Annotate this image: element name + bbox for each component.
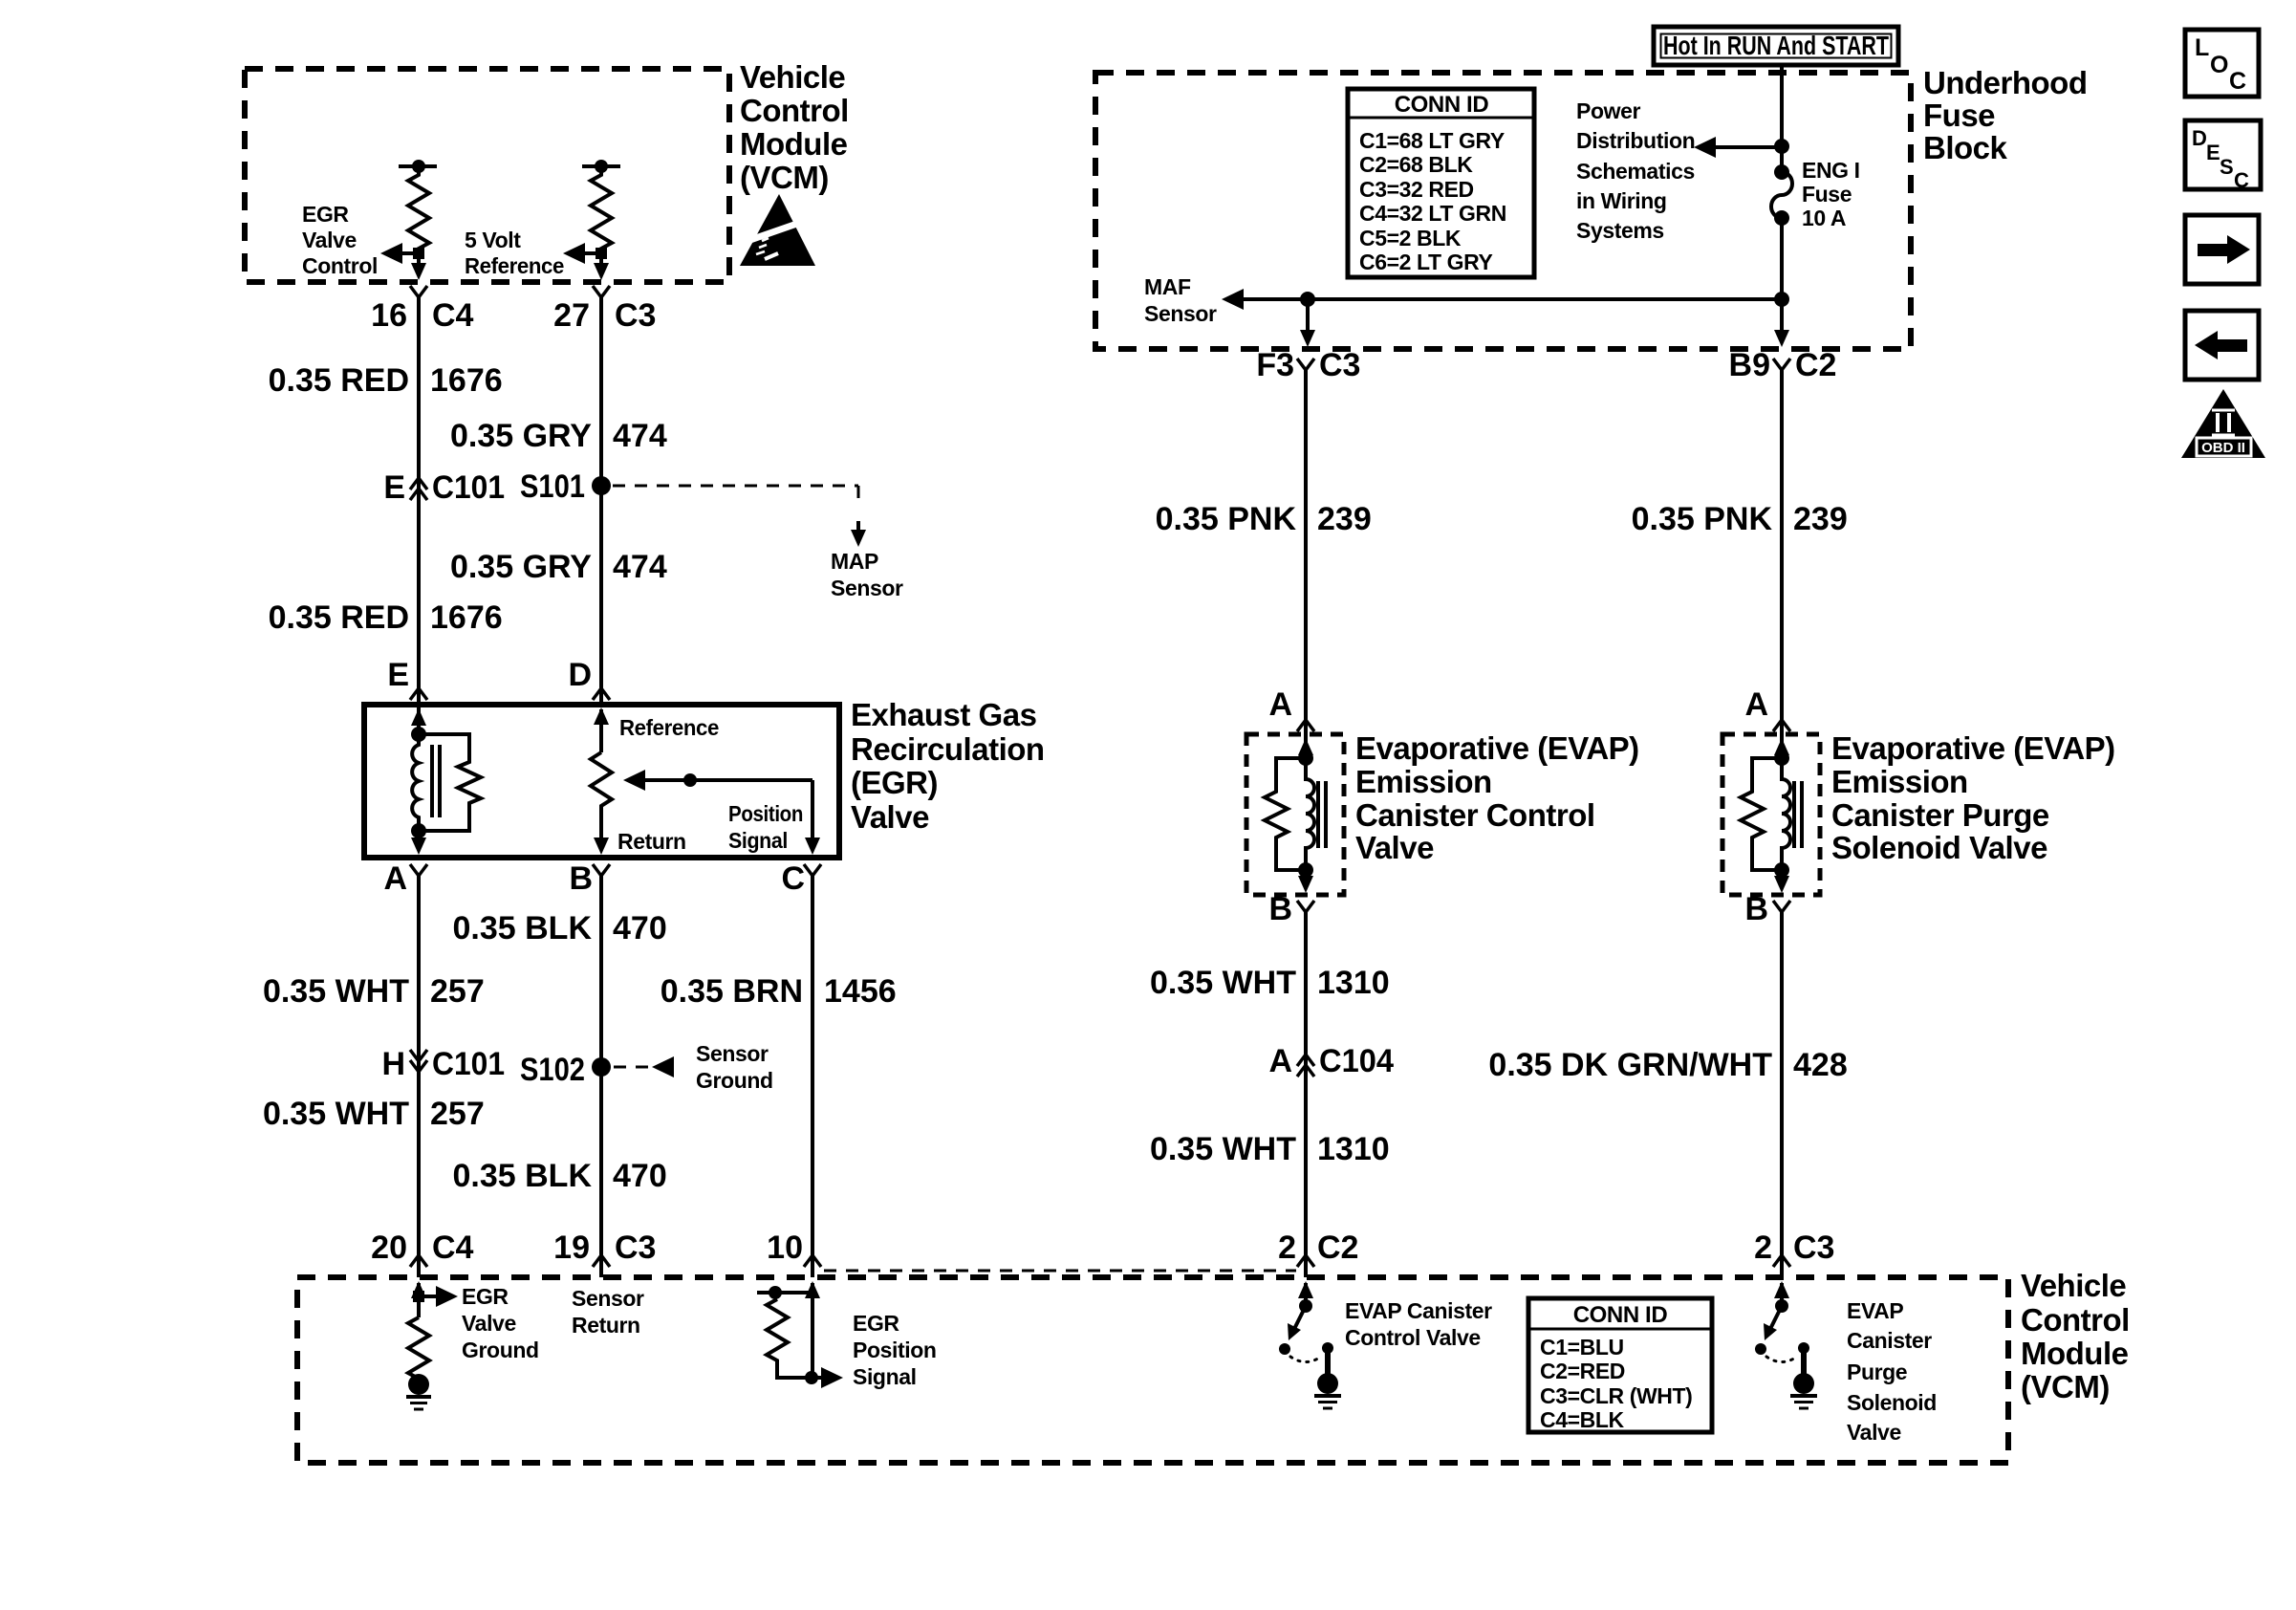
svg-text:1310: 1310 — [1317, 1131, 1390, 1167]
arrow: into EGR solenoid (pin E) — [411, 705, 426, 734]
svg-text:C2: C2 — [1317, 1229, 1358, 1266]
label: ENG I Fuse 10 A — [1802, 158, 1860, 230]
svg-text:474: 474 — [613, 418, 667, 454]
connector pin 16 C4 — [371, 286, 473, 334]
arrow: down to B9 — [1774, 330, 1789, 347]
wire: dashed circuit continuation (pin 10 net) — [824, 1270, 1296, 1273]
svg-text:OBD II: OBD II — [2201, 440, 2245, 456]
resistor: EGR solenoid parallel resistor — [419, 734, 481, 831]
module box: Vehicle Control Module (VCM) top-left — [245, 69, 729, 282]
wire: EGR position signal resistor bar — [757, 1286, 809, 1299]
svg-text:20: 20 — [371, 1229, 407, 1266]
svg-text:MAF: MAF — [1144, 274, 1191, 299]
svg-text:5 Volt: 5 Volt — [465, 228, 521, 252]
svg-text:B: B — [1744, 891, 1768, 927]
svg-text:C: C — [781, 860, 805, 897]
svg-text:B: B — [1268, 891, 1292, 927]
label: MAF Sensor — [1144, 274, 1217, 326]
label: EVAP Canister Control Valve — [1345, 1298, 1492, 1350]
svg-text:Distribution: Distribution — [1576, 128, 1695, 153]
node: position signal output junction — [805, 1371, 818, 1384]
svg-text:Sensor: Sensor — [831, 576, 903, 600]
svg-text:Control Valve: Control Valve — [1345, 1325, 1481, 1350]
svg-text:Purge: Purge — [1847, 1360, 1907, 1384]
svg-text:Canister: Canister — [1847, 1328, 1932, 1353]
svg-text:0.35 PNK: 0.35 PNK — [1632, 501, 1773, 537]
svg-text:474: 474 — [613, 549, 667, 585]
arrow: pin 20 into VCM — [411, 1281, 426, 1317]
switch: EVAP canister control valve driver — [1279, 1281, 1333, 1377]
svg-text:C2=RED: C2=RED — [1540, 1359, 1625, 1383]
label: Underhood Fuse Block — [1923, 65, 2087, 165]
node: EGR valve ground junction — [413, 1291, 424, 1302]
svg-text:Hot In RUN And START: Hot In RUN And START — [1663, 31, 1889, 60]
svg-text:ENG I: ENG I — [1802, 158, 1860, 183]
connector pin B9 C2 — [1729, 347, 1837, 383]
wire: 0.35 PNK 239 (F3 to EVAP control valve) — [1304, 370, 1308, 734]
connector pin A (EVAP control valve) — [1268, 686, 1314, 731]
svg-text:Reference: Reference — [619, 715, 719, 740]
svg-text:Module: Module — [740, 126, 848, 162]
table: CONN ID (VCM) — [1528, 1298, 1712, 1432]
svg-text:C3: C3 — [1319, 347, 1360, 383]
svg-text:L: L — [2195, 34, 2209, 61]
svg-text:Return: Return — [572, 1313, 640, 1338]
fuse: ENG I Fuse 10 A — [1771, 164, 1792, 226]
svg-text:Valve: Valve — [1355, 830, 1434, 865]
label: 0.35 GRY 474 (lower) — [450, 549, 667, 585]
label: Return — [617, 829, 686, 854]
svg-text:239: 239 — [1317, 501, 1372, 537]
svg-text:Fuse: Fuse — [1923, 98, 1995, 133]
coil: EGR valve solenoid winding — [412, 734, 440, 831]
arrow: into control valve solenoid — [1298, 734, 1313, 758]
coil: purge valve solenoid winding — [1782, 758, 1802, 870]
label: Vehicle Control Module (VCM) — [740, 59, 849, 195]
svg-text:(VCM): (VCM) — [740, 160, 829, 195]
svg-text:C: C — [2234, 168, 2249, 192]
svg-text:C6=2 LT GRY: C6=2 LT GRY — [1359, 250, 1492, 274]
arrow: solenoid to pin A — [411, 831, 426, 855]
arrow: reference into position sensor — [594, 707, 609, 752]
connector at EGR valve pin E — [410, 688, 427, 700]
module box: Vehicle Control Module (VCM) bottom — [297, 1277, 2008, 1463]
label: Reference — [619, 715, 719, 740]
label: EGR Position Signal — [853, 1311, 937, 1389]
arrow: return from position sensor — [594, 838, 609, 855]
icon: forward arrow button — [2185, 215, 2259, 284]
svg-text:Sensor: Sensor — [1144, 301, 1217, 326]
svg-text:27: 27 — [553, 297, 590, 334]
label: 0.35 GRY 474 (upper) — [450, 418, 667, 454]
label: MAP Sensor — [831, 549, 903, 600]
label: Evaporative (EVAP) Emission Canister Purge Solenoid Valve — [1831, 730, 2115, 865]
connector at EGR valve pin D — [593, 688, 610, 700]
svg-text:in Wiring: in Wiring — [1576, 188, 1667, 213]
svg-text:EGR: EGR — [302, 202, 349, 227]
svg-text:E: E — [383, 469, 405, 506]
svg-text:Position: Position — [853, 1338, 937, 1362]
feed box: Hot In RUN And START — [1654, 27, 1898, 65]
svg-text:Signal: Signal — [728, 828, 788, 853]
label: 0.35 PNK 239 (right) — [1632, 501, 1848, 537]
svg-text:(VCM): (VCM) — [2021, 1369, 2110, 1404]
svg-text:239: 239 — [1793, 501, 1848, 537]
svg-text:0.35 BRN: 0.35 BRN — [661, 973, 803, 1010]
svg-text:C3: C3 — [615, 297, 656, 334]
label: 0.35 WHT 257 (lower) — [263, 1096, 485, 1132]
resistor: control valve parallel resistor — [1265, 758, 1306, 870]
connector pin 2 C2 (VCM) — [1278, 1229, 1358, 1277]
label: 0.35 RED 1676 (upper) — [269, 362, 503, 399]
svg-text:CONN ID: CONN ID — [1573, 1302, 1668, 1328]
label: 0.35 RED 1676 (lower) — [269, 599, 503, 636]
svg-text:Vehicle: Vehicle — [740, 59, 845, 95]
svg-text:0.35 RED: 0.35 RED — [269, 599, 409, 636]
svg-text:C4=BLK: C4=BLK — [1540, 1407, 1624, 1432]
connector pin C (EGR valve) — [781, 860, 821, 897]
svg-text:D: D — [568, 657, 592, 693]
connector pin 20 C4 (VCM) — [371, 1229, 473, 1277]
svg-text:Recirculation: Recirculation — [851, 731, 1045, 767]
wire: 0.35 GRY 474 (pin27 to EGR valve D) — [599, 297, 603, 705]
svg-text:EGR: EGR — [853, 1311, 899, 1336]
svg-text:0.35 GRY: 0.35 GRY — [450, 549, 592, 585]
svg-text:Vehicle: Vehicle — [2021, 1268, 2126, 1303]
label: Vehicle Control Module (VCM) bottom — [2021, 1268, 2130, 1404]
svg-text:Systems: Systems — [1576, 218, 1664, 243]
svg-text:E: E — [2206, 141, 2220, 164]
splice S102 — [520, 1052, 611, 1088]
resistor: 5 volt reference driver (inside VCM) — [582, 160, 620, 253]
ground: purge valve driver — [1790, 1373, 1817, 1408]
wire: dashed branch S102 sensor ground — [614, 1056, 674, 1077]
svg-text:0.35 WHT: 0.35 WHT — [1150, 965, 1296, 1001]
svg-text:Reference: Reference — [465, 253, 564, 278]
svg-text:B9: B9 — [1729, 347, 1770, 383]
wire: 0.35 PNK 239 (B9 to EVAP purge valve) — [1780, 370, 1784, 734]
svg-text:Solenoid: Solenoid — [1847, 1390, 1937, 1415]
arrow: EGR valve control output (left) — [380, 243, 424, 264]
svg-text:C104: C104 — [1319, 1043, 1394, 1079]
svg-text:A: A — [1268, 1043, 1292, 1079]
icon: back arrow button — [2185, 311, 2259, 380]
coil: control valve solenoid winding — [1306, 758, 1326, 870]
arrow: to power distribution schematics — [1694, 137, 1782, 158]
node: MAF branch junction — [1774, 292, 1789, 307]
arrow: EGR position signal tap — [812, 1367, 843, 1388]
svg-text:16: 16 — [371, 297, 407, 334]
table: CONN ID (fuse block) — [1348, 89, 1534, 277]
arrow: purge valve to pin B — [1774, 870, 1789, 893]
svg-text:470: 470 — [613, 910, 667, 946]
label: 0.35 WHT 257 (upper) — [263, 973, 485, 1010]
svg-text:D: D — [2192, 126, 2207, 150]
label: 0.35 PNK 239 (left) — [1156, 501, 1372, 537]
svg-text:10 A: 10 A — [1802, 206, 1846, 230]
arrow: branch down to F3 — [1300, 299, 1315, 347]
svg-text:Control: Control — [740, 93, 849, 128]
svg-text:MAP: MAP — [831, 549, 878, 574]
svg-text:Return: Return — [617, 829, 686, 854]
resistor: purge valve parallel resistor — [1741, 758, 1782, 870]
resistor: EGR valve ground pulldown — [408, 1317, 429, 1379]
switch: EVAP canister purge solenoid driver — [1755, 1281, 1809, 1377]
svg-text:Canister Control: Canister Control — [1355, 797, 1595, 833]
svg-text:C101: C101 — [432, 1046, 505, 1082]
svg-text:Emission: Emission — [1355, 764, 1492, 799]
arrow: pin 10 into VCM — [805, 1281, 820, 1378]
svg-text:C4: C4 — [432, 1229, 474, 1266]
node: purge valve top junction — [1774, 751, 1789, 766]
label: 0.35 BLK 470 (upper) — [453, 910, 667, 946]
svg-text:2: 2 — [1754, 1229, 1772, 1266]
svg-text:Control: Control — [2021, 1302, 2130, 1338]
label: EGR Valve Ground — [462, 1284, 539, 1362]
svg-text:Position: Position — [728, 801, 803, 826]
svg-text:C2=68 BLK: C2=68 BLK — [1359, 152, 1473, 177]
node: control valve top junction — [1298, 751, 1313, 766]
svg-text:E: E — [387, 657, 409, 693]
component box: EVAP Emission Canister Control Valve — [1246, 734, 1344, 895]
label: 0.35 WHT 1310 (upper) — [1150, 965, 1390, 1001]
label: 0.35 WHT 1310 (lower) — [1150, 1131, 1390, 1167]
ground: EGR valve ground — [406, 1374, 431, 1409]
svg-text:Evaporative (EVAP): Evaporative (EVAP) — [1355, 730, 1639, 766]
svg-text:0.35 BLK: 0.35 BLK — [453, 910, 593, 946]
arrow: down to pin 27 — [594, 253, 609, 280]
svg-text:Valve: Valve — [302, 228, 357, 252]
wire: position signal wiper — [623, 770, 812, 841]
svg-text:1456: 1456 — [824, 973, 897, 1010]
wire: MAF sensor feed — [1222, 289, 1782, 310]
svg-text:0.35 WHT: 0.35 WHT — [263, 973, 409, 1010]
resistor: EGR valve control driver (inside VCM) — [399, 160, 437, 253]
svg-text:470: 470 — [613, 1158, 667, 1194]
svg-text:C3=32 RED: C3=32 RED — [1359, 177, 1474, 202]
svg-text:Solenoid Valve: Solenoid Valve — [1831, 830, 2047, 865]
svg-text:O: O — [2210, 52, 2228, 78]
svg-text:Block: Block — [1923, 130, 2008, 165]
svg-text:Canister Purge: Canister Purge — [1831, 797, 2049, 833]
svg-text:Underhood: Underhood — [1923, 65, 2087, 100]
svg-text:C1=68 LT GRY: C1=68 LT GRY — [1359, 128, 1505, 153]
label: Power Distribution Schematics in Wiring Systems — [1576, 98, 1695, 243]
svg-text:A: A — [1268, 686, 1292, 723]
node: power distribution tap — [1774, 139, 1789, 154]
svg-text:A: A — [383, 860, 407, 897]
wire: 0.35 BLK 470 (EGR B to VCM 19) — [599, 876, 603, 1255]
svg-text:A: A — [1744, 686, 1768, 723]
label: EVAP Canister Purge Solenoid Valve — [1847, 1298, 1937, 1445]
node: purge valve bottom junction — [1774, 862, 1789, 878]
arrow: position signal to pin C — [805, 838, 820, 855]
svg-text:Emission: Emission — [1831, 764, 1968, 799]
svg-text:EGR: EGR — [462, 1284, 509, 1309]
svg-text:Power: Power — [1576, 98, 1640, 123]
svg-text:C2: C2 — [1795, 347, 1836, 383]
svg-text:Control: Control — [302, 253, 378, 278]
wire: fuse output — [1780, 218, 1784, 335]
wire: 0.35 DK GRN/WHT 428 (purge B to VCM) — [1780, 912, 1784, 1255]
connector E C101 (in-line) — [383, 469, 505, 506]
svg-text:Sensor: Sensor — [696, 1041, 769, 1066]
node: solenoid top junction — [411, 727, 426, 742]
svg-text:0.35 DK GRN/WHT: 0.35 DK GRN/WHT — [1488, 1047, 1772, 1083]
resistor: EGR position sensor element — [591, 752, 612, 841]
svg-text:1310: 1310 — [1317, 965, 1390, 1001]
connector pin A (EGR valve) — [383, 860, 427, 897]
ESD sensitivity symbol — [740, 194, 815, 266]
svg-text:2: 2 — [1278, 1229, 1296, 1266]
svg-text:1676: 1676 — [430, 362, 503, 399]
svg-text:C4: C4 — [432, 297, 474, 334]
svg-text:Sensor: Sensor — [572, 1286, 644, 1311]
svg-text:B: B — [569, 860, 593, 897]
node: solenoid bottom junction — [411, 823, 426, 838]
label: 0.35 BLK 470 (lower) — [453, 1158, 667, 1194]
svg-text:EVAP: EVAP — [1847, 1298, 1903, 1323]
svg-text:1676: 1676 — [430, 599, 503, 636]
svg-text:10: 10 — [767, 1229, 803, 1266]
svg-text:Exhaust Gas: Exhaust Gas — [851, 697, 1036, 732]
arrow: down to pin 16 — [411, 253, 426, 280]
svg-text:0.35 PNK: 0.35 PNK — [1156, 501, 1297, 537]
svg-text:0.35 WHT: 0.35 WHT — [1150, 1131, 1296, 1167]
svg-text:Evaporative (EVAP): Evaporative (EVAP) — [1831, 730, 2115, 766]
ground: control valve driver — [1314, 1373, 1341, 1408]
connector pin B (EVAP control valve) — [1268, 891, 1314, 927]
arrow: to MAP sensor — [851, 521, 866, 547]
svg-text:Valve: Valve — [851, 799, 929, 835]
connector pin 10 (VCM) — [767, 1229, 821, 1277]
svg-text:EVAP Canister: EVAP Canister — [1345, 1298, 1492, 1323]
icon: DESC button — [2185, 120, 2261, 192]
svg-text:Ground: Ground — [696, 1068, 773, 1093]
connector pin B (EVAP purge valve) — [1744, 891, 1790, 927]
svg-text:Module: Module — [2021, 1336, 2129, 1371]
connector pin 2 C3 (VCM) — [1754, 1229, 1834, 1277]
label: pin E (EGR valve) — [387, 657, 409, 693]
svg-text:C1=BLU: C1=BLU — [1540, 1335, 1624, 1360]
svg-text:0.35 RED: 0.35 RED — [269, 362, 409, 399]
svg-text:Fuse: Fuse — [1802, 182, 1852, 207]
label: Sensor Ground — [696, 1041, 773, 1093]
component box: EVAP Emission Canister Purge Solenoid Valve — [1722, 734, 1820, 895]
label: EGR Valve Control — [302, 202, 378, 278]
svg-text:257: 257 — [430, 1096, 485, 1132]
svg-text:S102: S102 — [520, 1052, 585, 1088]
arrow: into purge valve solenoid — [1774, 734, 1789, 758]
arrow: control valve to pin B — [1298, 870, 1313, 893]
svg-text:C3: C3 — [1793, 1229, 1834, 1266]
connector pin 27 C3 — [553, 286, 656, 334]
svg-text:C4=32 LT GRN: C4=32 LT GRN — [1359, 201, 1506, 226]
connector pin F3 C3 — [1256, 347, 1360, 383]
svg-text:Valve: Valve — [1847, 1420, 1901, 1445]
svg-text:Valve: Valve — [462, 1311, 516, 1336]
svg-text:S101: S101 — [520, 468, 585, 505]
arrow: EGR valve ground tap — [419, 1286, 458, 1307]
svg-text:C3: C3 — [615, 1229, 656, 1266]
svg-text:0.35 GRY: 0.35 GRY — [450, 418, 592, 454]
svg-text:F3: F3 — [1256, 347, 1294, 383]
node: F3 branch junction — [1300, 292, 1315, 307]
label: Evaporative (EVAP) Emission Canister Control Valve — [1355, 730, 1639, 865]
icon: OBD II triangle — [2181, 389, 2265, 458]
component box: Exhaust Gas Recirculation (EGR) Valve — [364, 705, 839, 858]
module box: Underhood Fuse Block — [1095, 73, 1911, 349]
wire: dashed branch S101 to MAP sensor — [613, 486, 858, 501]
svg-text:Ground: Ground — [462, 1338, 539, 1362]
svg-text:19: 19 — [553, 1229, 590, 1266]
wire: 0.35 WHT 1310 (EVAP B to C104) — [1304, 912, 1308, 1255]
wire: 0.35 WHT 257 (EGR A to VCM 20) — [417, 876, 421, 1255]
label: Exhaust Gas Recirculation (EGR) Valve — [851, 697, 1045, 835]
svg-text:C5=2 BLK: C5=2 BLK — [1359, 226, 1462, 250]
label: pin D (EGR valve) — [568, 657, 592, 693]
svg-text:C: C — [2229, 68, 2246, 95]
label: Position Signal — [728, 801, 803, 853]
svg-text:C101: C101 — [432, 469, 505, 506]
splice S101 — [520, 468, 611, 505]
svg-text:S: S — [2220, 155, 2234, 179]
connector pin 19 C3 (VCM) — [553, 1229, 656, 1277]
svg-text:Schematics: Schematics — [1576, 159, 1695, 184]
svg-text:(EGR): (EGR) — [851, 765, 938, 800]
svg-text:257: 257 — [430, 973, 485, 1010]
svg-text:0.35 WHT: 0.35 WHT — [263, 1096, 409, 1132]
connector pin B (EGR valve) — [569, 860, 610, 897]
svg-text:0.35 BLK: 0.35 BLK — [453, 1158, 593, 1194]
resistor: EGR position signal load — [767, 1299, 812, 1378]
connector A C104 (in-line) — [1268, 1043, 1394, 1079]
icon: LOC button — [2185, 30, 2259, 97]
svg-text:C3=CLR (WHT): C3=CLR (WHT) — [1540, 1383, 1692, 1408]
label: 0.35 BRN 1456 — [661, 973, 897, 1010]
arrow: 5 volt reference output (left) — [563, 243, 607, 264]
svg-text:H: H — [381, 1046, 405, 1082]
wire: feed into fuse block — [1780, 65, 1784, 172]
wire: 0.35 BRN 1456 (EGR C to VCM 10) — [811, 876, 814, 1255]
label: 0.35 DK GRN/WHT 428 — [1488, 1047, 1847, 1083]
svg-text:428: 428 — [1793, 1047, 1848, 1083]
wire: 0.35 RED 1676 (pin16 to EGR valve E) — [417, 297, 421, 705]
label: 5 Volt Reference — [465, 228, 564, 278]
node: control valve bottom junction — [1298, 862, 1313, 878]
label: Sensor Return — [572, 1286, 644, 1338]
svg-text:Signal: Signal — [853, 1364, 917, 1389]
svg-text:CONN ID: CONN ID — [1395, 92, 1489, 118]
connector pin A (EVAP purge valve) — [1744, 686, 1790, 731]
connector H C101 (in-line) — [381, 1046, 505, 1082]
